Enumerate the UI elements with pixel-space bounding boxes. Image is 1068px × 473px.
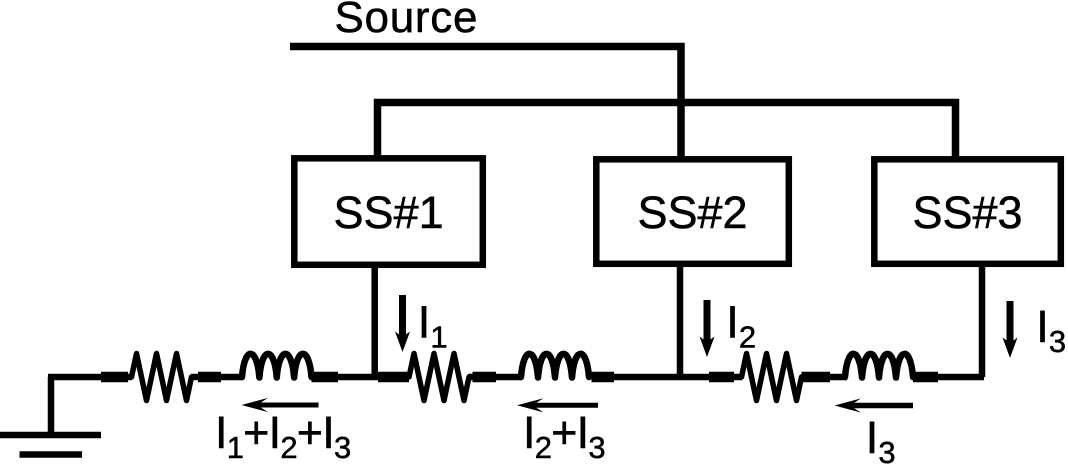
wire distribution bus (mid horizontal with drops to SS#1 and SS#3) xyxy=(378,103,956,157)
svg-text:SS#3: SS#3 xyxy=(912,187,1022,238)
lead stub right of R2 xyxy=(473,372,497,383)
lead stub right of L2 xyxy=(592,372,615,383)
lead stub right of R1 xyxy=(198,372,221,383)
wire neutral rail segment E xyxy=(612,374,742,381)
inductor L3 xyxy=(845,354,913,378)
current arrow I1 (down) xyxy=(395,295,410,352)
lead stub right of L1 xyxy=(312,372,339,383)
wire SS#2 drop to rail xyxy=(677,264,684,377)
svg-text:Source: Source xyxy=(335,0,479,42)
svg-text:SS#1: SS#1 xyxy=(334,187,444,238)
svg-text:SS#2: SS#2 xyxy=(637,187,747,238)
wire neutral rail segment B xyxy=(191,374,243,381)
wire ground riser xyxy=(48,377,55,435)
wire neutral rail segment C xyxy=(336,374,380,381)
resistor R3 xyxy=(742,354,802,401)
lead stub right of L3 xyxy=(913,372,938,383)
lead stub left of R1 xyxy=(101,372,128,383)
lead stub right of R3 xyxy=(802,372,831,383)
inductor L1 xyxy=(242,354,312,378)
lead stub left of R2 xyxy=(378,372,409,383)
ground symbol xyxy=(0,435,101,455)
current arrow I3 (down) xyxy=(1003,301,1018,358)
current arrow I2 (down) xyxy=(700,300,715,357)
wire neutral rail segment D xyxy=(468,374,522,381)
current arrow I3 (left) xyxy=(835,398,914,412)
substation box SS#3 xyxy=(874,159,1061,263)
substation box SS#2 xyxy=(596,159,789,263)
resistor R2 xyxy=(409,354,469,401)
wire neutral rail segment G xyxy=(936,374,984,381)
wire neutral rail segment F xyxy=(828,374,847,381)
wire SS#1 drop to rail xyxy=(371,265,378,377)
inductor L2 xyxy=(521,354,589,378)
lead stub left of R3 xyxy=(709,372,734,383)
wire source feeder (top horizontal + drop to SS#2) xyxy=(290,47,681,157)
wire SS#3 drop to rail xyxy=(979,264,986,377)
current arrow I1+I2+I3 (left) xyxy=(242,398,319,412)
current arrow I2+I3 (left) xyxy=(517,398,598,412)
resistor R1 xyxy=(132,354,192,401)
wire neutral rail segment A xyxy=(48,374,132,381)
substation box SS#1 xyxy=(294,158,483,264)
